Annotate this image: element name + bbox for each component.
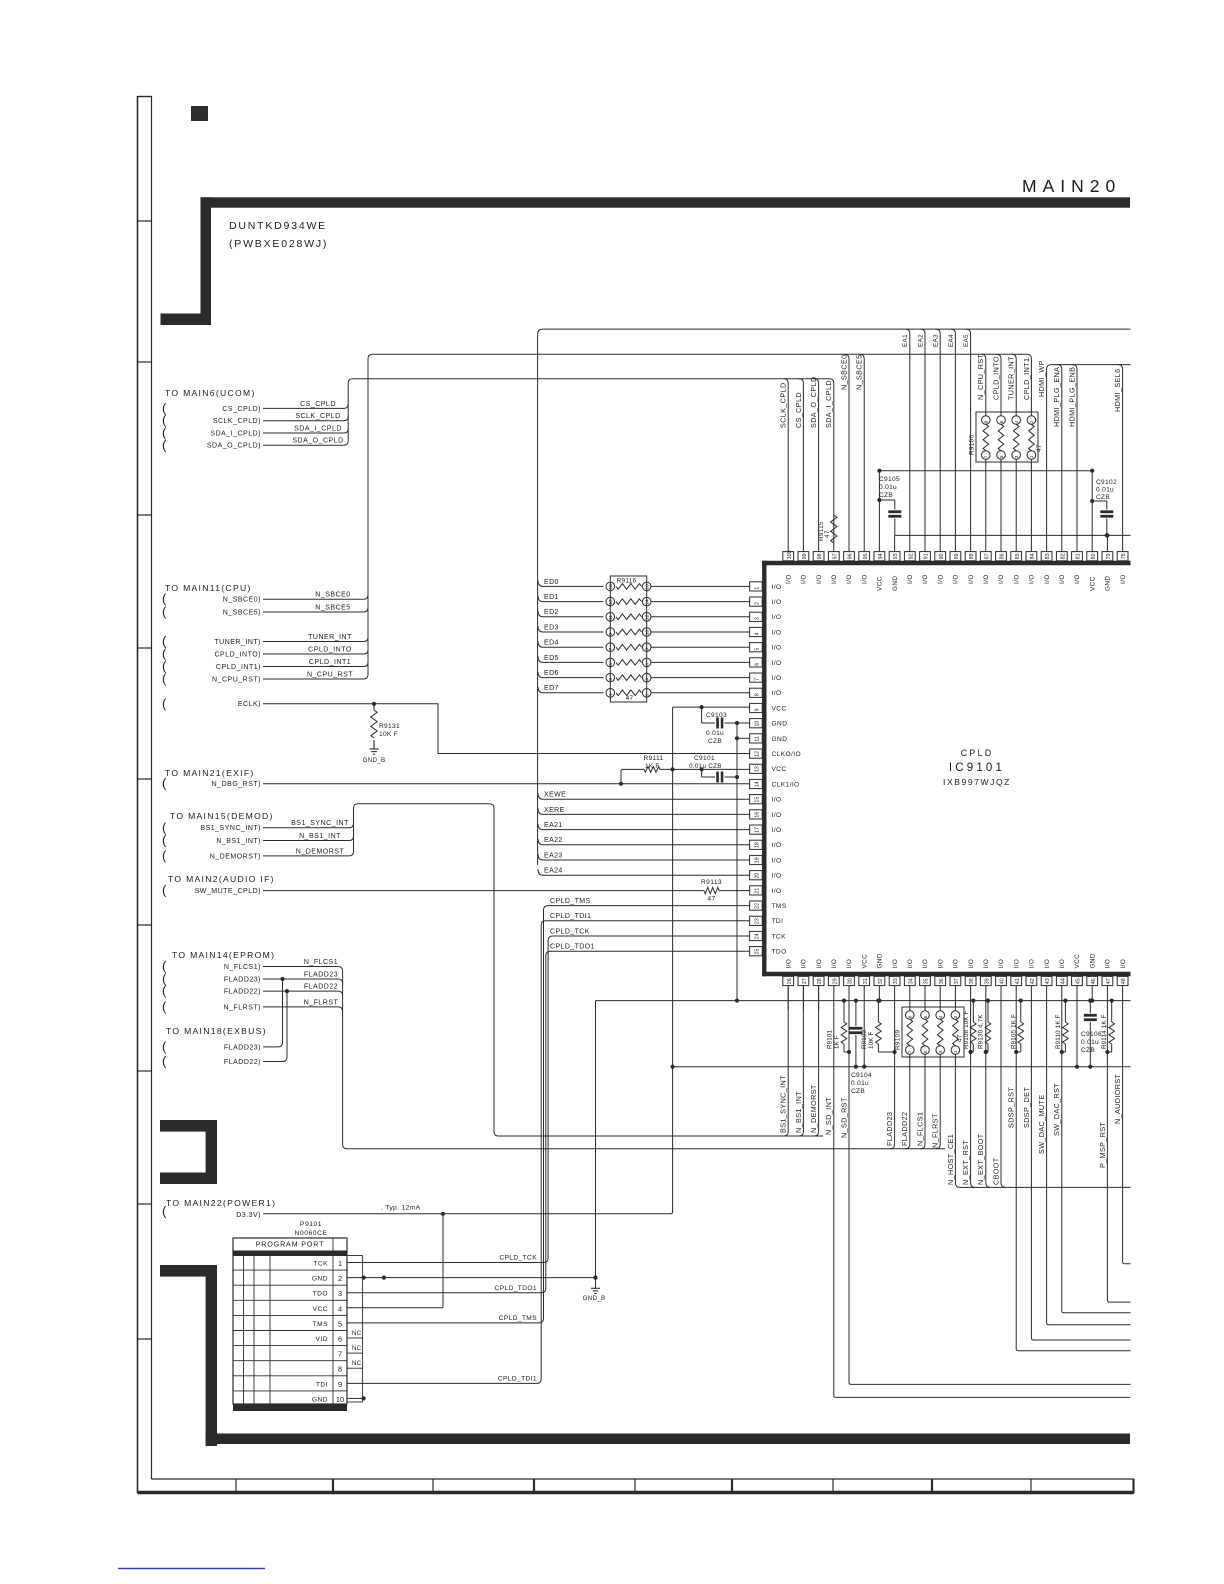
svg-text:SCLK_CPLD): SCLK_CPLD) bbox=[213, 418, 261, 425]
mid-left C-shaped tear mark bbox=[160, 1120, 217, 1184]
svg-text:91: 91 bbox=[924, 553, 930, 559]
svg-text:2: 2 bbox=[645, 693, 651, 696]
svg-text:TO MAIN6(UCOM): TO MAIN6(UCOM) bbox=[165, 388, 256, 398]
svg-text:P_MSP_RST: P_MSP_RST bbox=[1098, 1121, 1107, 1168]
svg-text:CBOOT: CBOOT bbox=[991, 1157, 1000, 1185]
pin 28 (I/O) bottom bbox=[813, 959, 824, 986]
svg-text:30: 30 bbox=[848, 978, 854, 984]
pin 96 (I/O) top bbox=[844, 552, 855, 584]
pin 89 (I/O) top bbox=[950, 552, 961, 584]
blue reference underline bottom-left bbox=[118, 1568, 265, 1570]
svg-text:CPLD_TMS: CPLD_TMS bbox=[499, 1315, 538, 1322]
svg-text:VCC: VCC bbox=[861, 954, 868, 969]
wire N_DBG_RST to CPLD pin14 bbox=[162, 776, 750, 791]
svg-text:40: 40 bbox=[1000, 978, 1006, 984]
wire ED2 through R9116 to pin 3 bbox=[538, 609, 750, 621]
pin 21 (I/O) left bbox=[750, 886, 782, 895]
svg-text:13: 13 bbox=[754, 766, 760, 772]
svg-text:I/O: I/O bbox=[1013, 574, 1020, 584]
program port row 2 GND bbox=[233, 1274, 347, 1285]
svg-text:45: 45 bbox=[1076, 978, 1082, 984]
svg-text:35: 35 bbox=[924, 978, 930, 984]
svg-text:TDO: TDO bbox=[313, 1291, 328, 1298]
svg-text:I/O: I/O bbox=[1120, 959, 1127, 969]
wire CPLD_INT1 row from MAIN11 into bus bbox=[162, 659, 368, 674]
svg-text:TO MAIN14(EPROM): TO MAIN14(EPROM) bbox=[172, 950, 275, 960]
pin 48 (I/O) bottom bbox=[1117, 959, 1128, 986]
bus peel from MAIN11 bus bbox=[845, 354, 850, 551]
svg-text:CS_CPLD: CS_CPLD bbox=[300, 401, 336, 408]
svg-text:CPLD_INT1: CPLD_INT1 bbox=[1022, 358, 1031, 400]
svg-text:VCC: VCC bbox=[877, 576, 884, 591]
svg-text:N_SBCE5: N_SBCE5 bbox=[855, 354, 864, 390]
svg-text:29: 29 bbox=[832, 978, 838, 984]
svg-text:TMS: TMS bbox=[313, 1321, 329, 1328]
svg-text:HDMI_SEL6: HDMI_SEL6 bbox=[1113, 368, 1122, 412]
svg-text:(: ( bbox=[162, 848, 167, 863]
svg-text:10K F: 10K F bbox=[379, 731, 398, 738]
svg-text:9: 9 bbox=[608, 632, 614, 635]
svg-text:9: 9 bbox=[338, 1380, 342, 1389]
svg-text:0.01u: 0.01u bbox=[851, 1080, 869, 1087]
svg-text:HDMI_PLG_ENA: HDMI_PLG_ENA bbox=[1052, 367, 1061, 427]
svg-text:34: 34 bbox=[908, 978, 914, 984]
svg-text:SDA_O_CPLD): SDA_O_CPLD) bbox=[207, 443, 261, 450]
wire VCC pin45 to rail bbox=[1075, 986, 1079, 1069]
pin 85 (I/O) top bbox=[1011, 552, 1022, 584]
capacitor C9101 0.01u CZB bbox=[689, 755, 739, 783]
svg-text:0.01u: 0.01u bbox=[1081, 1039, 1099, 1046]
svg-text:CPLD_TCK: CPLD_TCK bbox=[499, 1255, 537, 1262]
svg-text:TO MAIN15(DEMOD): TO MAIN15(DEMOD) bbox=[170, 811, 274, 821]
wire ED1 through R9116 to pin 2 bbox=[538, 594, 750, 606]
wire port VCC row4 to D3.3V bbox=[347, 1214, 443, 1308]
wire VCC pin31 to rail bbox=[862, 986, 866, 1069]
svg-text:N_AUDIORST: N_AUDIORST bbox=[1113, 1073, 1122, 1124]
title bar MAIN20 thick rule with left L-bracket bbox=[161, 197, 1131, 325]
svg-text:EA4: EA4 bbox=[948, 334, 955, 347]
svg-text:I/O: I/O bbox=[861, 574, 868, 584]
svg-text:27: 27 bbox=[802, 978, 808, 984]
svg-text:0.01u: 0.01u bbox=[1096, 487, 1114, 494]
svg-text:ED2: ED2 bbox=[544, 609, 559, 616]
HDMI bus from right edge bbox=[1047, 365, 1131, 552]
svg-text:CZB: CZB bbox=[1081, 1047, 1095, 1054]
pin 11 (GND) left bbox=[750, 734, 788, 743]
svg-text:XERE: XERE bbox=[544, 807, 565, 814]
svg-text:0.01u: 0.01u bbox=[706, 730, 724, 737]
svg-text:I/O: I/O bbox=[937, 959, 944, 969]
wire SDSP_RST from pin 41 to page edge bbox=[1007, 986, 1131, 1351]
svg-text:N_FLRST: N_FLRST bbox=[931, 1113, 940, 1148]
wire EA22 to pin 18 bbox=[538, 837, 750, 845]
svg-text:1K F: 1K F bbox=[645, 763, 660, 770]
svg-text:I/O: I/O bbox=[1059, 574, 1066, 584]
ground GND_B at program port bbox=[583, 1278, 606, 1302]
pins 26-28 stubs bbox=[787, 986, 789, 1010]
svg-text:36: 36 bbox=[939, 978, 945, 984]
svg-text:FLADD22: FLADD22 bbox=[900, 1112, 909, 1146]
wire BS1_SYNC_INT row from MAIN15 into bus bbox=[162, 820, 354, 835]
svg-text:90: 90 bbox=[939, 553, 945, 559]
svg-text:1: 1 bbox=[338, 1259, 342, 1268]
svg-text:ED1: ED1 bbox=[544, 594, 559, 601]
wire FLADD22 stub to MAIN18 bbox=[162, 991, 287, 1068]
svg-text:37: 37 bbox=[954, 978, 960, 984]
svg-text:I/O: I/O bbox=[968, 959, 975, 969]
svg-text:16: 16 bbox=[754, 812, 760, 818]
resistor R9108 10K F pull-down to GND rail bbox=[963, 999, 976, 1055]
svg-text:6: 6 bbox=[923, 1015, 929, 1018]
wire N_FLCS1 from R9109 join to MAIN14 bus bbox=[921, 1054, 926, 1148]
svg-text:23: 23 bbox=[754, 918, 760, 924]
resistor R9103 10K F pull-down to GND rail bbox=[861, 999, 897, 1055]
pin 81 (I/O) top bbox=[1072, 552, 1083, 584]
svg-text:8: 8 bbox=[984, 420, 990, 423]
pin 2 (I/O) left bbox=[750, 597, 782, 606]
wire FLADD22 from R9109 join to MAIN14 bus bbox=[905, 1054, 910, 1148]
svg-text:I/O: I/O bbox=[772, 660, 782, 667]
svg-text:BS1_SYNC_INT: BS1_SYNC_INT bbox=[779, 1075, 788, 1133]
svg-text:I/O: I/O bbox=[1044, 959, 1051, 969]
svg-text:38: 38 bbox=[969, 978, 975, 984]
svg-text:R9101: R9101 bbox=[827, 1029, 834, 1049]
svg-text:N_CPU_RST): N_CPU_RST) bbox=[212, 676, 261, 683]
svg-text:1: 1 bbox=[1029, 455, 1035, 458]
wire FLADD23 pin33 join to MAIN14 bus bbox=[890, 986, 895, 1149]
svg-text:1: 1 bbox=[754, 587, 760, 590]
VCC rail top (pin94 to pin80) bbox=[877, 469, 1094, 552]
svg-text:I/O: I/O bbox=[1029, 959, 1036, 969]
svg-text:I/O: I/O bbox=[998, 959, 1005, 969]
wire port GND row10 bbox=[347, 1396, 366, 1400]
pin 18 (I/O) left bbox=[750, 840, 782, 849]
svg-text:N_BS1_INT: N_BS1_INT bbox=[299, 833, 341, 840]
svg-text:46: 46 bbox=[1091, 978, 1097, 984]
pin 97 (I/O) top bbox=[828, 552, 839, 584]
svg-text:10: 10 bbox=[645, 630, 651, 636]
svg-text:I/O: I/O bbox=[785, 574, 792, 584]
pin 43 (I/O) bottom bbox=[1041, 959, 1052, 986]
svg-text:ECLK): ECLK) bbox=[238, 701, 261, 708]
svg-text:R9131: R9131 bbox=[379, 723, 400, 730]
svg-text:4: 4 bbox=[1014, 420, 1020, 423]
svg-text:3: 3 bbox=[754, 617, 760, 620]
svg-text:FLADD23): FLADD23) bbox=[224, 1044, 261, 1051]
svg-text:GND: GND bbox=[1105, 576, 1112, 591]
program port row 4 VCC bbox=[233, 1304, 347, 1315]
svg-text:0.01u: 0.01u bbox=[879, 484, 897, 491]
pin 38 (I/O) bottom bbox=[965, 959, 976, 986]
wire EA5 peel to top pin bbox=[963, 329, 971, 551]
wire CPLD_TDO1 pin25 to port row bbox=[348, 944, 750, 1293]
svg-text:CPLD_INTO): CPLD_INTO) bbox=[215, 651, 262, 658]
wire D3.3V supply to program port and CPLD VCC bbox=[162, 707, 673, 1219]
wire SW_MUTE_CPLD to CPLD pin21 through R9113 bbox=[162, 883, 750, 898]
svg-text:EA23: EA23 bbox=[544, 852, 563, 859]
svg-text:CPLD: CPLD bbox=[961, 748, 994, 758]
svg-text:N_FLRST): N_FLRST) bbox=[224, 1004, 261, 1011]
svg-text:BS1_SYNC_INT): BS1_SYNC_INT) bbox=[200, 825, 261, 832]
resistor R9130 4.7K pull-down to GND rail bbox=[978, 999, 991, 1055]
svg-text:EA2: EA2 bbox=[917, 334, 924, 347]
svg-text:39: 39 bbox=[984, 978, 990, 984]
svg-text:11: 11 bbox=[608, 615, 614, 620]
wire SCLK_CPLD row from MAIN6 into bus bbox=[162, 413, 348, 428]
bus peel to top pin bbox=[799, 379, 804, 552]
svg-text:98: 98 bbox=[817, 553, 823, 559]
bus corner ED/EA trunk line bbox=[538, 329, 1131, 865]
svg-text:I/O: I/O bbox=[772, 873, 782, 880]
svg-text:96: 96 bbox=[848, 553, 854, 559]
pin 6 (I/O) left bbox=[750, 658, 782, 667]
svg-text:CZB: CZB bbox=[851, 1088, 865, 1095]
wire CPLD_TDI1 pin23 to port row bbox=[348, 913, 750, 1383]
svg-text:5: 5 bbox=[999, 455, 1005, 458]
svg-text:N_SBCE0: N_SBCE0 bbox=[839, 354, 848, 390]
svg-text:5: 5 bbox=[923, 1050, 929, 1053]
svg-text:SW_MUTE_CPLD): SW_MUTE_CPLD) bbox=[195, 888, 261, 895]
wire FLADD22 row from MAIN14 into bus bbox=[162, 983, 343, 998]
svg-text:EA1: EA1 bbox=[902, 334, 909, 347]
wire ECLK with pulldown R9131 bbox=[162, 696, 750, 754]
program port row 10 GND bbox=[233, 1395, 347, 1406]
svg-text:79: 79 bbox=[1106, 553, 1112, 559]
svg-text:CZB: CZB bbox=[1096, 494, 1110, 501]
svg-text:FLADD22): FLADD22) bbox=[224, 1059, 261, 1066]
svg-text:CPLD_TCK: CPLD_TCK bbox=[550, 928, 590, 935]
svg-text:93: 93 bbox=[893, 553, 899, 559]
pin 4 (I/O) left bbox=[750, 627, 782, 636]
svg-text:XEWE: XEWE bbox=[544, 792, 566, 799]
ground GND_B under R9131 bbox=[363, 740, 386, 764]
wire HDMI_PLG_ENA peel to pin 82 bbox=[1052, 365, 1062, 552]
resistor R9111 1K F and capacitor C9101 on CLK1/VCC bbox=[621, 755, 750, 784]
svg-text:R9130 4.7K: R9130 4.7K bbox=[978, 1014, 985, 1049]
pin 35 (I/O) bottom bbox=[920, 959, 931, 986]
wire FLADD23 row from MAIN14 into bus bbox=[162, 971, 343, 986]
svg-text:I/O: I/O bbox=[785, 959, 792, 969]
svg-text:3: 3 bbox=[938, 1050, 944, 1053]
wire CS_CPLD row from MAIN6 into bus bbox=[162, 400, 348, 415]
svg-text:MAIN20: MAIN20 bbox=[1022, 176, 1121, 196]
pin 22 (TMS) left bbox=[750, 901, 787, 910]
svg-text:8: 8 bbox=[908, 1015, 914, 1018]
pin 37 (I/O) bottom bbox=[950, 959, 961, 986]
svg-text:I/O: I/O bbox=[1029, 574, 1036, 584]
svg-text:CPLD_INTO: CPLD_INTO bbox=[308, 646, 352, 653]
svg-text:C9101: C9101 bbox=[694, 755, 715, 762]
pin 92 (I/O) top bbox=[904, 552, 915, 584]
svg-text:FLADD23: FLADD23 bbox=[304, 971, 338, 978]
GND riser to program port ground bbox=[595, 1001, 597, 1278]
svg-text:D3.3V): D3.3V) bbox=[236, 1212, 261, 1219]
pin 31 (VCC) bottom bbox=[859, 954, 870, 986]
wire FLADD23 stub to MAIN18 bbox=[162, 979, 283, 1054]
capacitor C9102 0.01u CZB bbox=[1090, 479, 1117, 538]
svg-text:6: 6 bbox=[645, 663, 651, 666]
wire HDMI_SEL6 peel to pin 78 bbox=[1113, 365, 1123, 552]
boot-strap bus N_HOST_CE1/N_EXT_RST/N_EXT_BOOT/CBOOT to page edge bbox=[955, 986, 1130, 1188]
pin 45 (VCC) bottom bbox=[1072, 954, 1083, 986]
program port table frame bbox=[233, 1238, 347, 1411]
svg-text:47: 47 bbox=[1106, 978, 1112, 984]
junction FLADD22 tap bbox=[285, 989, 289, 993]
pin 100 (I/O) top bbox=[783, 550, 794, 584]
svg-text:VCC: VCC bbox=[772, 766, 787, 773]
svg-text:N_SBCE5: N_SBCE5 bbox=[315, 604, 350, 611]
wire CPLD_TCK pin24 to port row bbox=[348, 928, 750, 1262]
svg-text:33: 33 bbox=[893, 978, 899, 984]
svg-text:EA5: EA5 bbox=[963, 334, 970, 347]
pin 17 (I/O) left bbox=[750, 825, 782, 834]
svg-text:I/O: I/O bbox=[801, 959, 808, 969]
pin 7 (I/O) left bbox=[750, 673, 782, 682]
pin 33 (I/O) bottom bbox=[889, 959, 900, 986]
wire N_FLRST row from MAIN14 into bus bbox=[162, 999, 343, 1014]
svg-text:VCC: VCC bbox=[772, 705, 787, 712]
svg-text:15: 15 bbox=[608, 584, 614, 590]
svg-text:7: 7 bbox=[338, 1350, 342, 1359]
page border bottom ruler strip bbox=[138, 1479, 1135, 1493]
svg-text:FLADD22: FLADD22 bbox=[304, 984, 338, 991]
bus from MAIN14 down and across to flash net verticals bbox=[343, 971, 945, 1149]
svg-text:IC9101: IC9101 bbox=[949, 762, 1005, 774]
svg-text:I/O: I/O bbox=[772, 842, 782, 849]
svg-text:HDMI_WP: HDMI_WP bbox=[1037, 360, 1046, 397]
pin 47 (I/O) bottom bbox=[1102, 959, 1113, 986]
svg-text:TO MAIN21(EXIF): TO MAIN21(EXIF) bbox=[165, 768, 255, 778]
svg-text:N_DBG_RST): N_DBG_RST) bbox=[212, 781, 261, 788]
svg-text:42: 42 bbox=[1030, 978, 1036, 984]
pin 24 (TCK) left bbox=[750, 931, 786, 940]
svg-text:R9109: R9109 bbox=[895, 1030, 902, 1050]
svg-text:GND: GND bbox=[892, 576, 899, 591]
svg-text:I/O: I/O bbox=[892, 959, 899, 969]
svg-text:78: 78 bbox=[1121, 553, 1127, 559]
pin 15 (I/O) left bbox=[750, 795, 782, 804]
svg-text:(: ( bbox=[162, 983, 167, 998]
svg-text:ED7: ED7 bbox=[544, 685, 559, 692]
svg-text:SDA_O_CPLD: SDA_O_CPLD bbox=[809, 376, 818, 428]
svg-text:I/O: I/O bbox=[772, 584, 782, 591]
pin 30 (I/O) bottom bbox=[844, 959, 855, 986]
svg-text:I/O: I/O bbox=[772, 690, 782, 697]
svg-text:88: 88 bbox=[969, 553, 975, 559]
svg-text:SDSP_DET: SDSP_DET bbox=[1022, 1087, 1031, 1128]
pin 98 (I/O) top bbox=[813, 552, 824, 584]
svg-text:99: 99 bbox=[802, 553, 808, 559]
svg-text:6: 6 bbox=[754, 663, 760, 666]
svg-text:100: 100 bbox=[787, 550, 793, 559]
svg-text:(: ( bbox=[162, 696, 167, 711]
svg-text:I/O: I/O bbox=[772, 614, 782, 621]
svg-text:16: 16 bbox=[645, 584, 651, 590]
svg-text:N_FLCS1: N_FLCS1 bbox=[304, 959, 338, 966]
wire N_SD_INT from pin 29 to page edge bbox=[824, 986, 1130, 1398]
bus from MAIN6 up and across to CPLD top pins bbox=[348, 379, 834, 552]
capacitor C9106 0.01u CZB between rails bbox=[1081, 999, 1102, 1069]
bus peel from MAIN11 bus bbox=[997, 354, 1002, 415]
program port row 6 VID bbox=[233, 1335, 347, 1346]
pin 82 (I/O) top bbox=[1056, 552, 1067, 584]
svg-text:CS_CPLD: CS_CPLD bbox=[794, 392, 803, 428]
GND rail bottom (to GND_B) bbox=[596, 999, 1131, 1003]
svg-text:12: 12 bbox=[645, 614, 651, 620]
svg-text:47: 47 bbox=[1036, 444, 1043, 452]
svg-text:R9110 1K F: R9110 1K F bbox=[1055, 1014, 1062, 1049]
wire P_MSP_RST from pin 47 to page edge bbox=[1098, 986, 1131, 1303]
svg-text:80: 80 bbox=[1091, 553, 1097, 559]
svg-text:(: ( bbox=[162, 437, 167, 452]
svg-text:I/O: I/O bbox=[801, 574, 808, 584]
pin 36 (I/O) bottom bbox=[935, 959, 946, 986]
svg-text:2: 2 bbox=[1029, 420, 1035, 423]
pin 95 (I/O) top bbox=[859, 552, 870, 584]
svg-text:VCC: VCC bbox=[1074, 954, 1081, 969]
resistor R9115 47 on SDA_I_CPLD drop bbox=[818, 515, 837, 543]
svg-text:GND: GND bbox=[877, 953, 884, 968]
pin 83 (I/O) top bbox=[1041, 552, 1052, 584]
bus peel to top pin bbox=[784, 379, 789, 552]
page border left ruler strip bbox=[138, 96, 152, 1493]
svg-text:N_SBCE0): N_SBCE0) bbox=[223, 597, 261, 604]
svg-text:EA24: EA24 bbox=[544, 868, 563, 875]
svg-text:GND_B: GND_B bbox=[363, 757, 386, 764]
svg-text:TUNER_INT: TUNER_INT bbox=[1007, 356, 1016, 400]
svg-text:GND: GND bbox=[1089, 953, 1096, 968]
svg-text:6: 6 bbox=[999, 420, 1005, 423]
svg-text:CZB: CZB bbox=[879, 492, 893, 499]
svg-text:10: 10 bbox=[754, 721, 760, 727]
svg-text:ED0: ED0 bbox=[544, 579, 559, 586]
wire EA4 peel to top pin bbox=[948, 329, 956, 551]
svg-text:CZB: CZB bbox=[708, 738, 722, 745]
svg-text:I/O: I/O bbox=[953, 959, 960, 969]
svg-text:10: 10 bbox=[336, 1395, 344, 1404]
wire pin 28 join to MAIN15 bus bbox=[814, 986, 819, 1136]
svg-text:I/O: I/O bbox=[1013, 959, 1020, 969]
bus peel from MAIN11 bus bbox=[1012, 354, 1017, 415]
svg-text:(: ( bbox=[162, 604, 167, 619]
svg-text:GND: GND bbox=[312, 1396, 328, 1403]
svg-text:4: 4 bbox=[938, 1015, 944, 1018]
svg-text:I/O: I/O bbox=[1059, 959, 1066, 969]
svg-text:13: 13 bbox=[608, 599, 614, 605]
wire port GND row2 to GND_B bbox=[347, 1276, 598, 1280]
svg-text:. Typ. 12mA: . Typ. 12mA bbox=[381, 1205, 421, 1212]
wire XEWE to pin 15 bbox=[538, 792, 750, 800]
svg-text:FLADD22): FLADD22) bbox=[224, 989, 261, 996]
svg-text:I/O: I/O bbox=[922, 959, 929, 969]
wire N_SBCE5 row from MAIN11 into bus bbox=[162, 604, 368, 619]
bus peel from MAIN11 bus bbox=[860, 354, 865, 551]
pin 99 (I/O) top bbox=[798, 552, 809, 584]
svg-text:NC: NC bbox=[352, 1345, 362, 1352]
pin 80 (VCC) top bbox=[1087, 552, 1098, 591]
svg-text:N_BS1_INT): N_BS1_INT) bbox=[216, 838, 261, 845]
svg-text:3: 3 bbox=[338, 1289, 342, 1298]
svg-text:2: 2 bbox=[338, 1274, 342, 1283]
svg-text:43: 43 bbox=[1045, 978, 1051, 984]
svg-text:NC: NC bbox=[352, 1360, 362, 1367]
pin 78 (I/O) top bbox=[1117, 552, 1128, 584]
pin 5 (I/O) left bbox=[750, 643, 782, 652]
svg-text:GND: GND bbox=[772, 721, 788, 728]
svg-text:(: ( bbox=[162, 671, 167, 686]
svg-text:17: 17 bbox=[754, 827, 760, 833]
wire ED3 through R9116 to pin 4 bbox=[538, 624, 750, 636]
